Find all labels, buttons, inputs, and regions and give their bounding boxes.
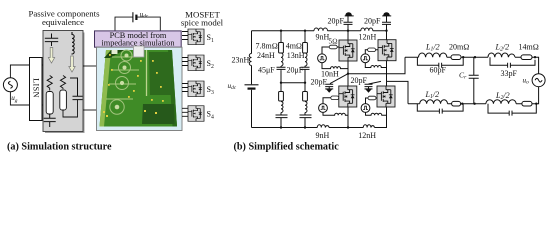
capacitor (col2 parallel C) xyxy=(70,78,83,100)
svg-text:LISN: LISN xyxy=(31,78,40,98)
resistor bottom leg2 xyxy=(522,101,532,106)
svg-text:60pF: 60pF xyxy=(430,66,447,75)
capacitor 20pF top-right xyxy=(382,16,391,31)
svg-text:14mΩ: 14mΩ xyxy=(519,43,539,52)
svg-text:20pF: 20pF xyxy=(311,78,328,87)
wire right-leg step xyxy=(387,81,409,103)
resistor 20mOhm xyxy=(451,55,461,60)
MOSFET S4 xyxy=(188,106,204,122)
svg-text:(b) Simplified schematic: (b) Simplified schematic xyxy=(234,141,340,152)
gate loop coil 10nH upper-left xyxy=(322,63,348,69)
inductor branch1 lower xyxy=(281,102,283,113)
gate source lower-mid xyxy=(361,104,370,113)
gate resistor upper-left xyxy=(329,45,337,49)
gate wire lower-mid xyxy=(366,98,378,104)
wire gray box to PCB box bottom xyxy=(83,109,97,111)
gate loop coil lower-left xyxy=(323,112,348,115)
inductor 23nH xyxy=(249,54,251,66)
svg-text:12nH: 12nH xyxy=(359,33,377,42)
svg-text:equivalence: equivalence xyxy=(42,17,84,27)
gray equivalence box xyxy=(43,31,83,132)
MOSFET upper-left xyxy=(339,40,357,61)
wire link rail xyxy=(281,82,305,84)
ground up (left) xyxy=(345,15,354,17)
svg-text:9nH: 9nH xyxy=(316,33,330,42)
ground down (mid-right) xyxy=(365,88,373,90)
MOSFET S3 xyxy=(188,81,204,97)
equivalence arrow col2 xyxy=(69,56,75,72)
capacitor bottom leg2 branch xyxy=(488,104,536,116)
wire source top to LISN xyxy=(10,65,29,78)
battery Udc (part a) wire bracket xyxy=(115,17,160,31)
branch2 wire xyxy=(304,31,306,128)
wire gray box to PCB box top xyxy=(83,65,97,67)
gate source upper-mid xyxy=(361,54,370,63)
branch1 wire xyxy=(280,31,282,128)
svg-text:20μF: 20μF xyxy=(287,66,304,75)
resistor 4mOhm xyxy=(303,43,308,54)
inductor 9nH top xyxy=(314,28,328,31)
MOSFET upper-right xyxy=(378,40,396,61)
gate loop coil lower-mid xyxy=(366,112,387,115)
capacitor Cr xyxy=(469,57,479,103)
equivalence arrow col1 xyxy=(48,48,54,64)
MOSFET lower-right xyxy=(377,86,395,107)
resistor rect (col1 model) xyxy=(46,92,53,115)
ground up (right) xyxy=(382,15,391,17)
capacitor branch2 lower xyxy=(300,115,312,118)
resistor branch2 lower xyxy=(303,92,308,102)
gate source upper-left xyxy=(318,54,327,63)
gate resistor lower-left xyxy=(331,96,339,100)
svg-text:9nH: 9nH xyxy=(316,131,330,140)
capacitor branch1 lower xyxy=(276,115,288,118)
gate wire upper-mid xyxy=(365,50,378,54)
AC source ug xyxy=(3,78,17,92)
capacitor 20uF xyxy=(301,67,310,69)
MOSFET bridge upper-left leads xyxy=(347,31,349,74)
label: Passive components equivalence xyxy=(28,9,100,27)
svg-text:4mΩ: 4mΩ xyxy=(286,42,302,51)
wire left vertical xyxy=(251,31,253,85)
svg-text:33pF: 33pF xyxy=(501,69,518,78)
wire output bottom rail xyxy=(408,87,539,104)
inductor symbol (box col2 top) xyxy=(72,32,74,55)
resistor zigzag (col1 model R) xyxy=(47,76,52,91)
MOSFET S1 xyxy=(188,29,204,45)
inductor 12nH top xyxy=(361,28,373,31)
svg-text:5Ω: 5Ω xyxy=(329,38,338,46)
capacitor 20pF top-left xyxy=(344,16,353,31)
capacitor 20pF mid-right xyxy=(365,81,382,89)
inductor L2/2 top xyxy=(488,53,515,57)
MOSFET bridge lower-left leads xyxy=(347,74,349,128)
inductor branch2 lower xyxy=(305,102,307,113)
wire mid rail xyxy=(348,57,405,73)
svg-text:20pF: 20pF xyxy=(328,16,345,25)
inductor L1/2 bottom xyxy=(420,100,448,104)
label MOSFET spice model xyxy=(181,9,224,27)
gate wire upper-left xyxy=(322,47,339,54)
wire output top rail xyxy=(405,57,539,73)
MOSFET bridge lower-right leads xyxy=(386,81,388,86)
inductor 12nH bottom xyxy=(363,125,374,128)
inductor 9nH bottom xyxy=(317,125,329,128)
svg-text:13nH: 13nH xyxy=(287,51,305,60)
resistor 14mOhm xyxy=(521,55,532,60)
svg-text:7.8mΩ: 7.8mΩ xyxy=(256,42,278,51)
capacitor bottom leg1 branch xyxy=(417,104,463,114)
resistor zigzag (col2 model R) xyxy=(60,76,65,90)
capacitor 20pF mid-left xyxy=(325,74,348,89)
capacitor 33pF branch xyxy=(490,57,535,67)
inductor L1/2 top xyxy=(419,53,447,57)
MOSFET bridge upper-right leads xyxy=(386,31,388,82)
wire battery to bottom rail xyxy=(251,90,253,128)
gate resistor upper-mid xyxy=(368,48,376,52)
gray box shadow xyxy=(45,33,85,134)
gate wire lower-left xyxy=(323,98,339,104)
AC source uo xyxy=(532,74,545,87)
wire source bottom to LISN xyxy=(10,92,29,105)
wires PCB to S3 xyxy=(182,84,188,92)
gate loop coil upper-mid xyxy=(365,63,386,68)
PCB model header box xyxy=(95,31,182,47)
PCB photo xyxy=(97,46,183,131)
svg-text:45μF: 45μF xyxy=(258,66,275,75)
ground down (mid-left) xyxy=(325,88,333,90)
resistor branch1 lower xyxy=(279,92,284,102)
wires PCB to S1 xyxy=(182,32,188,40)
gate source lower-left xyxy=(319,104,328,113)
capacitor symbol (box col1 top) xyxy=(45,34,58,47)
part (b) labels xyxy=(228,16,539,140)
battery udc bars xyxy=(245,84,259,86)
wires PCB to S2 xyxy=(182,58,188,66)
battery Udc bars xyxy=(132,12,134,22)
wire LISN to gray box xyxy=(42,65,43,105)
resistor bottom leg1 xyxy=(452,101,461,106)
svg-text:spice model: spice model xyxy=(181,17,224,27)
wire top rail xyxy=(252,30,387,32)
gate resistor lower-mid xyxy=(368,96,376,100)
LISN box xyxy=(30,58,43,121)
wires PCB to S4 xyxy=(182,108,188,116)
resistor 7.8mOhm xyxy=(279,43,284,54)
capacitor (col1 model C) xyxy=(44,114,56,127)
svg-text:12nH: 12nH xyxy=(358,131,376,140)
inductor L2/2 bottom xyxy=(486,100,516,104)
MOSFET S2 xyxy=(188,55,204,71)
capacitor 60pF branch xyxy=(417,57,463,67)
resistor rect (col2 model) xyxy=(60,90,67,110)
capacitor 45uF xyxy=(277,66,286,71)
svg-text:20mΩ: 20mΩ xyxy=(449,43,469,52)
inductor 24nH xyxy=(281,53,283,66)
junction dots xyxy=(280,30,538,129)
inductor 13nH xyxy=(305,53,307,66)
svg-text:23nH: 23nH xyxy=(232,55,250,64)
svg-text:24nH: 24nH xyxy=(257,51,275,60)
wire bottom rail xyxy=(252,107,387,128)
MOSFET lower-left xyxy=(339,86,357,107)
svg-text:(a) Simulation structure: (a) Simulation structure xyxy=(7,141,112,152)
svg-text:20pF: 20pF xyxy=(351,76,368,85)
svg-text:20pF: 20pF xyxy=(364,16,381,25)
wire col2 bottom link xyxy=(63,100,78,117)
